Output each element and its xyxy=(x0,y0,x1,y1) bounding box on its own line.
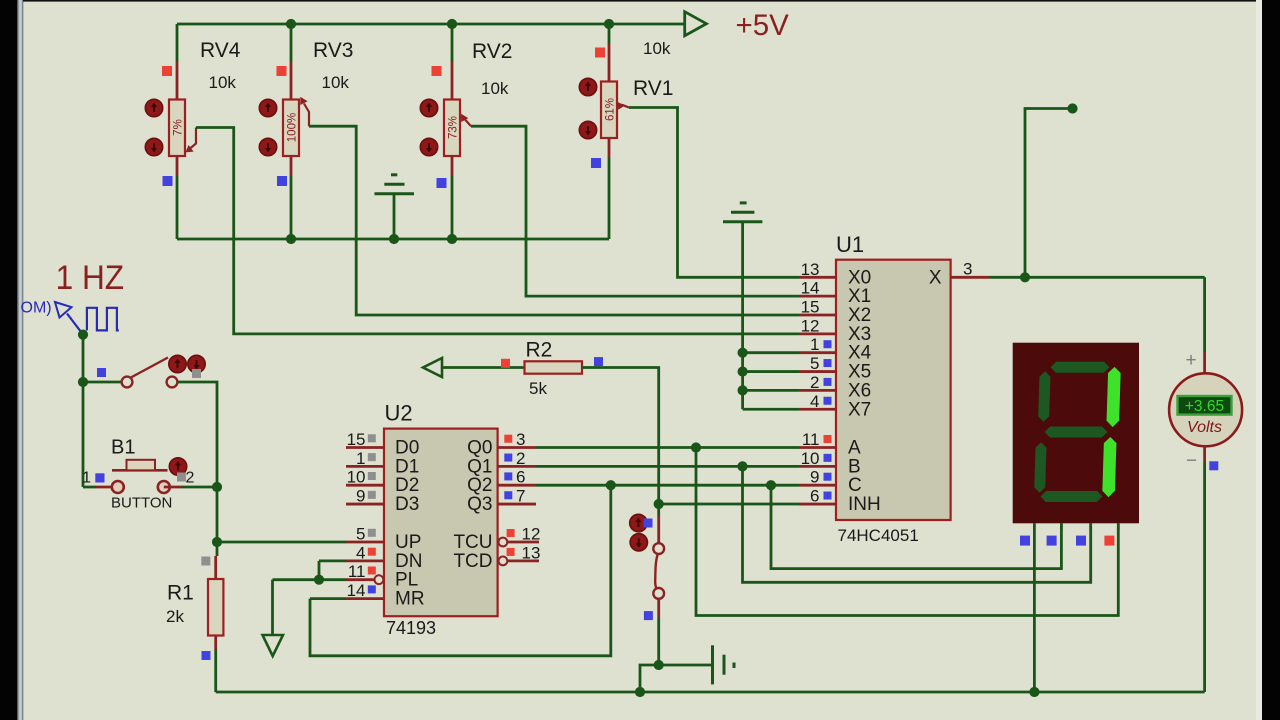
potentiometer RV2 body xyxy=(444,100,460,157)
pin voltmeter minus xyxy=(1203,446,1206,461)
node clock branch xyxy=(78,377,88,387)
wire RV2 top xyxy=(451,24,454,62)
potentiometer RV3 body xyxy=(283,100,299,157)
U1 pin 5 X5 xyxy=(799,370,836,373)
blue state square RV3 pin2 xyxy=(277,176,287,186)
blue state square SW1 xyxy=(96,473,105,482)
wire clock down xyxy=(82,335,85,487)
wire G2 to X7 xyxy=(743,408,799,411)
node bottom rail at RV2 xyxy=(447,234,457,244)
wire PL link xyxy=(273,578,347,581)
svg-text:MR: MR xyxy=(395,589,425,610)
pin B1 right xyxy=(164,486,181,489)
ground G2 xyxy=(741,222,744,410)
svg-text:X6: X6 xyxy=(848,380,871,401)
U2 pin 12 TCU xyxy=(499,538,508,547)
svg-text:10k: 10k xyxy=(209,73,237,92)
svg-text:RV4: RV4 xyxy=(200,39,241,62)
knob RV3 upper xyxy=(259,99,276,116)
node B1 junction xyxy=(212,482,222,492)
svg-text:+3.65: +3.65 xyxy=(1185,398,1224,415)
svg-text:4: 4 xyxy=(356,543,365,562)
wire pot bottom rail xyxy=(177,238,609,241)
node Q2 branch xyxy=(766,480,776,490)
svg-text:X3: X3 xyxy=(848,324,871,345)
U2 pin 3 Q0 xyxy=(498,446,536,449)
svg-text:D2: D2 xyxy=(395,475,419,496)
blue state square B1 pin1 xyxy=(95,474,104,483)
svg-text:R2: R2 xyxy=(526,339,553,362)
svg-text:100%: 100% xyxy=(287,113,299,142)
pin SW2 bottom xyxy=(657,599,660,618)
blue state square SW2 bottom xyxy=(644,611,653,620)
ground G3 xyxy=(659,664,713,667)
U1 pin 14 X1 xyxy=(799,295,836,298)
svg-text:R1: R1 xyxy=(167,582,194,605)
pin RV2 top terminal xyxy=(451,62,454,100)
button B1 cap xyxy=(112,469,168,472)
node MR to Q2 xyxy=(606,480,616,490)
wire A branch to display xyxy=(696,448,1118,616)
svg-text:Volts: Volts xyxy=(1187,419,1222,436)
node top rail at RV2 xyxy=(447,19,457,29)
node Q1 branch xyxy=(737,461,747,471)
svg-text:Q2: Q2 xyxy=(467,475,492,496)
svg-text:11: 11 xyxy=(348,562,366,581)
wire RV2 wiper to X1 xyxy=(471,126,799,296)
node top rail at RV1 xyxy=(604,19,614,29)
svg-text:X5: X5 xyxy=(848,362,871,383)
U2 pin 2 Q1 xyxy=(498,465,536,468)
gray state square R1 top xyxy=(201,557,210,566)
wire Q1 to B xyxy=(536,465,799,468)
svg-text:10: 10 xyxy=(801,449,820,468)
U2 pin 15 D0 xyxy=(346,446,384,449)
svg-text:1: 1 xyxy=(356,449,365,468)
svg-text:B: B xyxy=(848,456,861,477)
svg-text:B1: B1 xyxy=(111,437,135,459)
svg-text:1: 1 xyxy=(82,470,91,487)
svg-text:74HC4051: 74HC4051 xyxy=(838,526,919,545)
svg-text:D0: D0 xyxy=(395,438,419,459)
ground arrow terminal xyxy=(271,580,274,635)
svg-text:13: 13 xyxy=(522,543,541,562)
U2 pin 6 Q2 xyxy=(498,484,536,487)
svg-text:D3: D3 xyxy=(395,494,419,515)
wire G2 to X4 xyxy=(743,351,799,354)
blue state square RV1 pin2 xyxy=(591,158,601,168)
svg-text:X4: X4 xyxy=(848,343,872,364)
node clock terminal xyxy=(78,330,88,340)
wire display pin1 to rail xyxy=(1033,523,1036,692)
wire RV4 wiper to X3 xyxy=(196,128,799,334)
pin R1 bottom xyxy=(214,636,217,650)
U2 pin 13 TCD xyxy=(499,557,508,566)
node X stub end xyxy=(1067,103,1077,113)
pin RV4 bottom terminal xyxy=(176,156,179,176)
svg-text:C: C xyxy=(848,475,862,496)
svg-text:+: + xyxy=(1186,350,1197,371)
svg-text:9: 9 xyxy=(810,468,819,487)
svg-text:2: 2 xyxy=(810,373,819,392)
U1 pin 12 X3 xyxy=(799,332,836,335)
svg-text:4: 4 xyxy=(810,392,819,411)
blue state square SW1 left xyxy=(97,368,106,377)
U2 pin 5 UP xyxy=(346,541,384,544)
node Q0 branch xyxy=(691,442,701,452)
7-segment display DS1 xyxy=(1013,343,1139,524)
svg-text:X1: X1 xyxy=(848,286,871,307)
red state square RV1 pin1 xyxy=(595,48,605,58)
wire DN link xyxy=(319,561,346,580)
svg-text:3: 3 xyxy=(516,430,525,449)
svg-text:2k: 2k xyxy=(166,607,184,626)
pin SW2 top xyxy=(657,516,660,544)
pin R1 top xyxy=(214,556,217,579)
blue state square RV2 pin2 xyxy=(437,178,447,188)
wire B1 to vertical xyxy=(181,486,217,489)
U1 pin 11 A xyxy=(799,446,836,449)
red state square RV2 pin1 xyxy=(432,66,442,76)
U1 pin 1 X4 xyxy=(799,351,836,354)
wire R2 right xyxy=(582,368,659,505)
svg-text:RV1: RV1 xyxy=(633,77,673,100)
resistor R2 body xyxy=(525,361,583,373)
knob RV1 lower xyxy=(579,121,596,138)
svg-text:9: 9 xyxy=(356,487,365,506)
wire X stub up xyxy=(1025,109,1073,278)
U1 pin 15 X2 xyxy=(799,314,836,317)
svg-text:A: A xyxy=(848,438,861,459)
svg-text:12: 12 xyxy=(522,525,541,544)
clock generator 1HZ symbol xyxy=(67,314,83,335)
svg-text:1: 1 xyxy=(810,335,819,354)
blue state square display b xyxy=(1047,536,1057,546)
blue state square display c xyxy=(1076,536,1086,546)
svg-text:11: 11 xyxy=(802,430,820,449)
svg-text:UP: UP xyxy=(395,532,421,553)
svg-text:7%: 7% xyxy=(173,119,185,136)
switch SW2 contact bottom xyxy=(653,588,664,599)
wire G2 to X6 xyxy=(743,389,799,392)
svg-text:6: 6 xyxy=(810,487,819,506)
svg-text:5k: 5k xyxy=(529,379,547,398)
U2 pin 10 D2 xyxy=(346,484,384,487)
button B1 contact left xyxy=(112,481,124,493)
knob RV1 upper xyxy=(579,78,596,95)
knob SW2 b xyxy=(630,534,647,551)
node X4 tie xyxy=(738,348,748,358)
pin RV3 top terminal xyxy=(290,62,293,100)
node INH junction xyxy=(654,499,664,509)
gray state square SW1 xyxy=(192,369,201,378)
potentiometer RV4 body xyxy=(169,100,185,157)
wire to B1 xyxy=(83,486,96,489)
blue state square RV4 pin2 xyxy=(163,176,173,186)
svg-text:10k: 10k xyxy=(643,39,671,58)
red state square R2 left xyxy=(501,359,510,368)
node bottom rail at RV3 xyxy=(286,234,296,244)
knob B1 xyxy=(169,458,186,475)
display pin stubs xyxy=(1061,523,1118,530)
svg-text:10k: 10k xyxy=(481,79,509,98)
switch SW1 lever xyxy=(129,358,168,379)
blue state square R1 bottom xyxy=(202,651,211,660)
wire MR loop xyxy=(310,485,611,656)
svg-text:RV3: RV3 xyxy=(313,39,353,62)
wire Q2 to C xyxy=(536,484,799,487)
svg-text:U1: U1 xyxy=(836,232,864,257)
wire R2 left xyxy=(442,366,525,369)
svg-text:RV2: RV2 xyxy=(472,40,512,63)
svg-text:TCD: TCD xyxy=(453,551,492,572)
button B1 contact right xyxy=(158,481,170,493)
U2 pin 11 PL xyxy=(346,578,374,581)
wiper arrow RV4 xyxy=(190,128,196,149)
node bottom rail switch xyxy=(635,687,645,697)
counter U2 body xyxy=(384,429,498,617)
wiper arrow RV1 xyxy=(622,105,629,108)
svg-text:INH: INH xyxy=(848,494,881,515)
svg-text:5: 5 xyxy=(810,354,819,373)
svg-text:BUTTON: BUTTON xyxy=(111,495,172,512)
red state square display d xyxy=(1104,536,1114,546)
svg-text:−: − xyxy=(1186,451,1197,472)
wire bottom rail xyxy=(216,691,1205,694)
wire RV1 wiper to X0 xyxy=(629,108,799,278)
node PL junction xyxy=(314,575,324,585)
gray state square B1 xyxy=(177,473,186,482)
wire RV1 bottom xyxy=(608,158,611,239)
knob SW1 b xyxy=(188,355,205,372)
U1 pin 3 X output xyxy=(951,276,989,279)
U1 pin 13 X0 xyxy=(799,276,836,279)
svg-text:2: 2 xyxy=(186,470,195,487)
voltmeter body xyxy=(1169,373,1242,446)
pin voltmeter plus xyxy=(1203,352,1206,374)
blue state square display a xyxy=(1020,536,1030,546)
node X6 tie xyxy=(738,385,748,395)
ground G1 xyxy=(393,195,396,239)
wire SW2 to rail xyxy=(640,665,659,692)
wire INH xyxy=(659,503,799,506)
wire +5V top rail xyxy=(177,23,685,26)
svg-text:TCU: TCU xyxy=(453,532,492,553)
knob RV4 upper xyxy=(145,99,162,116)
switch SW1 contact left xyxy=(122,377,133,388)
wire voltmeter down xyxy=(1203,462,1206,693)
U1 pin 9 C xyxy=(799,484,836,487)
svg-text:PL: PL xyxy=(395,570,418,591)
U1 pin 4 X7 xyxy=(799,408,836,411)
wire SW2 down xyxy=(657,618,660,666)
blue state square SW2 top xyxy=(644,519,653,528)
pin RV4 top terminal xyxy=(176,62,179,100)
wire RV3 bottom xyxy=(290,176,293,239)
U2 pin 9 D3 xyxy=(346,503,384,506)
wire voltmeter top xyxy=(1203,277,1206,352)
knob RV2 upper xyxy=(420,99,437,116)
svg-text:13: 13 xyxy=(801,260,820,279)
svg-text:7: 7 xyxy=(516,487,525,506)
node SW2 ground junction xyxy=(654,660,664,670)
U2 pin 14 MR xyxy=(346,597,384,600)
knob RV4 lower xyxy=(145,138,162,155)
voltmeter LCD xyxy=(1178,396,1232,415)
svg-text:OM): OM) xyxy=(21,300,52,317)
knob RV2 lower xyxy=(420,138,437,155)
svg-text:15: 15 xyxy=(801,298,820,317)
knob SW1 a xyxy=(169,355,186,372)
svg-text:X0: X0 xyxy=(848,267,871,288)
blue state square R2 right xyxy=(594,357,603,366)
U1 pin 6 INH xyxy=(799,503,836,506)
knob SW2 a xyxy=(630,514,647,531)
svg-text:3: 3 xyxy=(963,260,972,279)
svg-text:61%: 61% xyxy=(605,98,617,121)
red state square RV4 pin1 xyxy=(162,66,172,76)
svg-text:+5V: +5V xyxy=(736,9,790,42)
svg-text:X: X xyxy=(929,268,942,289)
resistor R1 body xyxy=(208,579,223,636)
U2 pin 7 Q3 xyxy=(498,503,536,506)
switch SW2 lever xyxy=(655,555,657,589)
blue state square voltmeter xyxy=(1209,461,1218,470)
U2 pin 1 D1 xyxy=(346,465,384,468)
wire SW1 to vertical xyxy=(178,382,218,487)
node top rail at RV3 xyxy=(286,19,296,29)
svg-text:Q3: Q3 xyxy=(467,494,492,515)
wire R1 to rail xyxy=(214,649,217,692)
wire to SW2 xyxy=(657,504,660,516)
wire RV1 top xyxy=(608,24,611,44)
wire B branch to display xyxy=(743,466,1091,582)
svg-text:5: 5 xyxy=(356,525,365,544)
svg-text:Q1: Q1 xyxy=(467,456,492,477)
wire Q0 to A xyxy=(536,446,799,449)
node UP branch xyxy=(212,537,222,547)
wire G2 to X5 xyxy=(743,370,799,373)
svg-text:10k: 10k xyxy=(322,73,350,92)
power arrow R2 left xyxy=(423,358,442,377)
svg-text:1 HZ: 1 HZ xyxy=(56,259,125,297)
switch SW1 contact right xyxy=(167,377,178,388)
svg-text:15: 15 xyxy=(347,430,366,449)
U1 pin 10 B xyxy=(799,465,836,468)
svg-text:14: 14 xyxy=(347,581,366,600)
pin RV3 bottom terminal xyxy=(290,156,293,176)
svg-text:6: 6 xyxy=(516,468,525,487)
multiplexer U1 body xyxy=(836,260,951,520)
wire button vertical xyxy=(216,487,219,556)
pin B1 left xyxy=(96,486,118,489)
svg-text:U2: U2 xyxy=(385,401,413,426)
knob RV3 lower xyxy=(259,138,276,155)
wire RV2 bottom xyxy=(451,176,454,239)
wire X output xyxy=(989,276,1205,279)
pin RV1 bottom terminal xyxy=(608,138,611,158)
svg-text:73%: 73% xyxy=(448,116,460,139)
node X branch xyxy=(1020,272,1030,282)
svg-text:14: 14 xyxy=(801,279,820,298)
pin RV2 bottom terminal xyxy=(451,156,454,176)
U1 pin 2 X6 xyxy=(799,389,836,392)
svg-text:X2: X2 xyxy=(848,305,871,326)
node bottom rail at ground xyxy=(389,234,399,244)
node X5 tie xyxy=(738,366,748,376)
wire RV4 bottom xyxy=(176,176,179,239)
wiper arrow RV2 xyxy=(465,120,471,127)
wiper arrow RV3 xyxy=(304,104,309,127)
red state square RV3 pin1 xyxy=(277,66,287,76)
wire RV4 top xyxy=(176,24,179,62)
svg-text:Q0: Q0 xyxy=(467,438,492,459)
U2 pin 4 DN xyxy=(346,560,384,563)
wire C branch to display xyxy=(771,485,1061,568)
svg-text:10: 10 xyxy=(347,468,366,487)
switch SW2 contact top xyxy=(653,543,664,554)
wire RV3 top xyxy=(290,24,293,62)
node bottom rail display xyxy=(1029,687,1039,697)
svg-text:D1: D1 xyxy=(395,456,419,477)
svg-text:74193: 74193 xyxy=(386,618,436,638)
potentiometer RV1 body xyxy=(601,82,617,139)
svg-text:2: 2 xyxy=(516,449,525,468)
wire to SW1 xyxy=(83,381,123,384)
svg-text:12: 12 xyxy=(801,316,820,335)
wire UP xyxy=(217,541,346,544)
wire RV3 wiper to X2 xyxy=(309,126,799,315)
pin RV1 top terminal xyxy=(608,44,611,82)
power arrow +5V terminal xyxy=(685,12,707,36)
svg-text:X7: X7 xyxy=(848,399,871,420)
